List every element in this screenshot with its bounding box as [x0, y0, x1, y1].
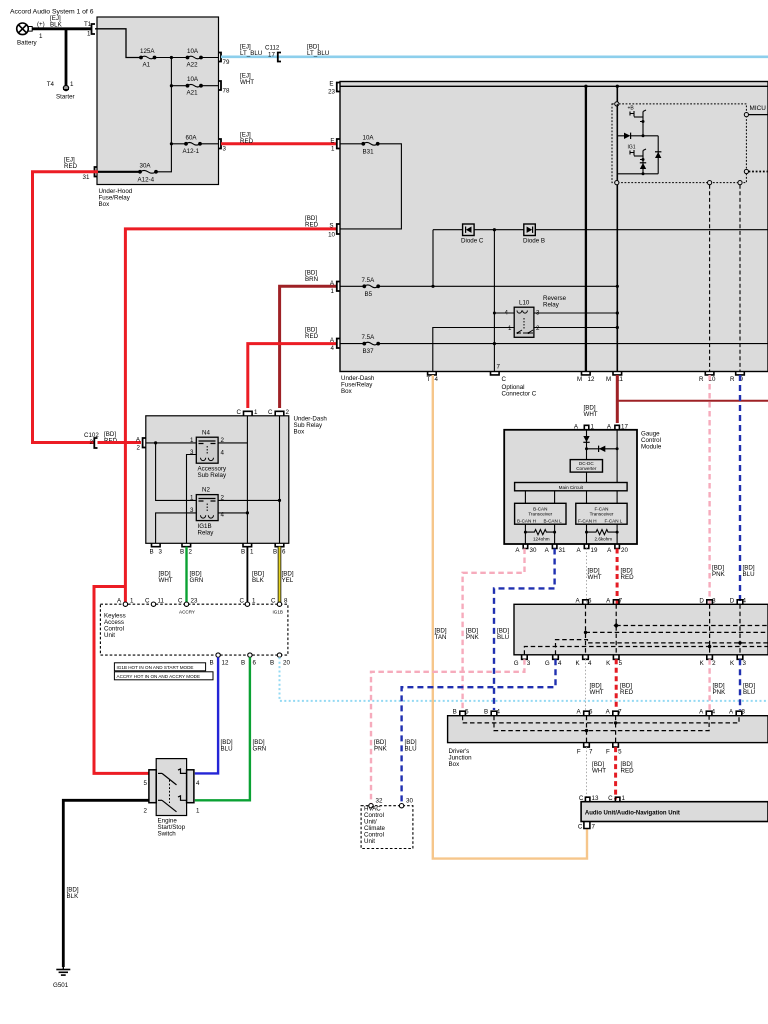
- wire A2 to N4 pin1 and N2 pin1: [146, 442, 197, 444]
- svg-text:WHT: WHT: [592, 768, 606, 775]
- svg-text:LT_BLU: LT_BLU: [240, 50, 262, 57]
- svg-text:B31: B31: [363, 148, 375, 155]
- svg-text:LT_BLU: LT_BLU: [307, 50, 329, 57]
- svg-text:Switch: Switch: [158, 831, 177, 838]
- pin A3 top: [736, 711, 742, 716]
- svg-text:20: 20: [283, 660, 290, 667]
- svg-text:WHT: WHT: [590, 689, 604, 696]
- switch contacts: [158, 769, 186, 812]
- svg-text:6: 6: [282, 549, 286, 556]
- svg-text:10A: 10A: [363, 134, 375, 141]
- svg-text:Unit: Unit: [364, 838, 375, 845]
- svg-text:G501: G501: [53, 982, 69, 989]
- gauge control module box: [504, 430, 637, 544]
- svg-text:60A: 60A: [186, 134, 198, 141]
- djb internal dashed wires: [463, 716, 739, 743]
- svg-text:2: 2: [90, 439, 94, 446]
- keyless bottom pin B12: [216, 653, 220, 657]
- pin A30 bottom: [523, 544, 528, 549]
- wire BD BLU K3 to DJB A3: [739, 659, 741, 710]
- wire BD BLK B1 to keyless C1: [246, 547, 248, 602]
- svg-text:20: 20: [621, 547, 628, 554]
- svg-text:B: B: [150, 549, 154, 556]
- fuse A12-4 30A wire: [98, 171, 139, 173]
- svg-text:T4: T4: [47, 81, 55, 88]
- svg-text:RED: RED: [240, 138, 254, 145]
- svg-text:4: 4: [196, 780, 200, 787]
- vertical from diode row to B37 row and pin 7: [493, 230, 495, 372]
- wire N4 pin3 to B2: [187, 455, 197, 544]
- wire C2 to N2 pin2 to B6: [279, 416, 281, 543]
- pin D3 top: [707, 600, 713, 605]
- svg-text:A12-4: A12-4: [138, 176, 155, 183]
- svg-text:3: 3: [742, 709, 746, 716]
- micu bottom wire: [617, 174, 658, 181]
- svg-text:Box: Box: [449, 761, 461, 768]
- svg-text:1: 1: [252, 598, 256, 605]
- wire BD TAN T4 to audio C7: [433, 375, 587, 859]
- M11 bus vertical: [616, 86, 618, 371]
- svg-text:6: 6: [589, 709, 593, 716]
- svg-text:7: 7: [497, 364, 501, 371]
- svg-text:32: 32: [376, 798, 383, 805]
- svg-text:Diode C: Diode C: [461, 238, 484, 245]
- wire BD PNK R10 to D3: [708, 375, 710, 604]
- wire BD RED A4 to C1: [248, 344, 336, 408]
- svg-text:B: B: [241, 549, 245, 556]
- svg-text:WHT: WHT: [240, 79, 254, 86]
- fuse B5 7.5A: [340, 285, 363, 287]
- svg-text:E: E: [330, 138, 334, 145]
- relay pin4 wire: [494, 312, 514, 314]
- svg-text:M: M: [606, 376, 611, 383]
- svg-text:30: 30: [530, 547, 537, 554]
- svg-text:30: 30: [406, 798, 413, 805]
- svg-text:Main Circuit: Main Circuit: [559, 485, 584, 490]
- keyless bottom pin B20: [277, 653, 281, 657]
- relay pin3 wire: [534, 312, 617, 314]
- svg-text:1: 1: [70, 81, 74, 88]
- pin K4 bottom: [583, 655, 589, 660]
- M12 bus vertical: [585, 86, 587, 371]
- svg-text:A1: A1: [143, 62, 151, 69]
- svg-text:C: C: [502, 376, 507, 383]
- pin M11: [613, 372, 622, 375]
- pin C7 bottom: [584, 822, 590, 829]
- svg-text:YEL: YEL: [282, 577, 294, 584]
- svg-text:4: 4: [712, 709, 716, 716]
- fuse B37 7.5A: [340, 343, 363, 345]
- wire BD RED K5 to DJB A7: [615, 659, 618, 710]
- connector C102: [94, 438, 97, 448]
- pin F7 bottom: [584, 743, 590, 748]
- svg-text:WHT: WHT: [584, 411, 598, 418]
- svg-text:7.5A: 7.5A: [362, 277, 376, 284]
- svg-text:C: C: [237, 409, 242, 416]
- svg-text:RED: RED: [621, 768, 635, 775]
- pin A4 top: [706, 711, 712, 716]
- svg-text:C112: C112: [265, 45, 280, 52]
- pin G3 bottom: [522, 655, 528, 660]
- svg-text:5: 5: [618, 749, 622, 756]
- svg-text:Box: Box: [99, 201, 111, 208]
- pin S10: [337, 224, 340, 234]
- wire LT_BLU pin79 to right edge: [221, 55, 768, 58]
- keyless top pin C11: [151, 602, 155, 606]
- wire EJ RED pin31 down to C102: [33, 172, 99, 443]
- ground G501: [56, 967, 70, 975]
- svg-text:1: 1: [331, 288, 335, 295]
- dashed verticals to R10 R9: [709, 185, 711, 372]
- svg-text:7: 7: [618, 709, 622, 716]
- svg-text:PNK: PNK: [466, 634, 480, 641]
- svg-text:1: 1: [508, 325, 512, 332]
- relay N4: [190, 430, 227, 480]
- svg-text:B-CAN L: B-CAN L: [544, 519, 563, 524]
- svg-text:7: 7: [619, 597, 623, 604]
- pin A1: [337, 282, 340, 292]
- transistor IG1: [628, 145, 647, 160]
- wire BD BLU R9 to D4: [739, 375, 741, 604]
- pin C1 top: [615, 797, 620, 802]
- svg-text:1: 1: [591, 424, 595, 431]
- svg-text:N4: N4: [202, 430, 210, 437]
- svg-text:23: 23: [191, 598, 198, 605]
- svg-text:A22: A22: [187, 62, 199, 69]
- wire N2 pin3 to B3: [156, 513, 197, 543]
- HVAC control unit dashed box: [361, 806, 413, 849]
- svg-text:10: 10: [328, 232, 335, 239]
- wire battery to T1: [33, 27, 92, 30]
- svg-text:TAN: TAN: [435, 634, 447, 641]
- wire A1 to bus: [155, 57, 187, 59]
- svg-text:BLK: BLK: [67, 893, 80, 900]
- svg-text:B: B: [241, 660, 245, 667]
- wire BD BLU G4 to HVAC 30: [402, 659, 556, 806]
- svg-text:B5: B5: [365, 291, 373, 298]
- svg-text:L10: L10: [519, 300, 530, 307]
- B-CAN terminator 124ohm: [525, 524, 554, 544]
- svg-text:13: 13: [592, 795, 599, 802]
- battery: [17, 23, 33, 35]
- svg-text:C: C: [178, 598, 183, 605]
- under-dash fuse/relay box: [340, 82, 768, 372]
- svg-text:124ohm: 124ohm: [533, 537, 550, 542]
- svg-text:M: M: [577, 376, 582, 383]
- svg-text:1: 1: [254, 409, 258, 416]
- wire LT BLU dotted B20 down right: [280, 657, 768, 701]
- svg-text:8: 8: [284, 598, 288, 605]
- svg-text:1: 1: [130, 598, 134, 605]
- svg-text:Audio Unit/Audio-Navigation Un: Audio Unit/Audio-Navigation Unit: [585, 811, 680, 817]
- svg-text:2: 2: [144, 808, 148, 815]
- svg-text:1: 1: [331, 146, 335, 153]
- note box 1: [114, 663, 205, 671]
- svg-text:MICU: MICU: [750, 105, 767, 112]
- fuse A22 10A: [186, 56, 202, 59]
- pin A2 left: [143, 438, 146, 448]
- svg-text:B: B: [273, 549, 277, 556]
- pin E1: [337, 139, 340, 149]
- svg-text:79: 79: [223, 59, 230, 66]
- diode B: [523, 224, 545, 245]
- B-CAN transceiver: [525, 491, 617, 504]
- main circuit: [515, 483, 628, 491]
- svg-text:1: 1: [196, 808, 200, 815]
- pin 3: [218, 139, 221, 149]
- wire BD BLK switch pin2 to ground: [63, 800, 149, 967]
- pin A1 top: [584, 425, 589, 430]
- svg-text:12: 12: [222, 660, 229, 667]
- svg-text:C: C: [578, 824, 583, 831]
- svg-text:R: R: [730, 376, 735, 383]
- transistor +B: [628, 106, 647, 122]
- audio unit box: [581, 802, 768, 822]
- svg-text:23: 23: [328, 89, 335, 96]
- pin 79: [218, 53, 221, 62]
- pin 31: [95, 167, 98, 177]
- wire BD RED A20 to A7: [616, 549, 619, 605]
- pin F5 bottom: [613, 743, 619, 748]
- wire BD WHT K4 to DJB A6: [585, 659, 587, 710]
- svg-text:4: 4: [435, 376, 439, 383]
- wire B31 to S10: [340, 144, 401, 229]
- svg-text:31: 31: [559, 547, 566, 554]
- connector C112: [278, 53, 281, 62]
- pin E23: [337, 83, 340, 92]
- diode below A1: [586, 430, 588, 449]
- wire C102 to A2: [98, 441, 142, 444]
- svg-text:IG1B: IG1B: [273, 610, 283, 615]
- svg-text:PNK: PNK: [713, 689, 727, 696]
- svg-text:3: 3: [712, 597, 716, 604]
- pin 78: [218, 81, 221, 90]
- pin A20 bottom: [615, 544, 620, 549]
- svg-text:1: 1: [39, 33, 43, 40]
- pin C13 top: [585, 797, 590, 802]
- pin A7 top: [613, 600, 619, 605]
- svg-text:F-CAN L: F-CAN L: [605, 519, 623, 524]
- pin C1 top: [244, 411, 253, 416]
- svg-text:4: 4: [221, 450, 225, 457]
- pin D4 top: [737, 600, 743, 605]
- svg-text:ACCRY: ACCRY: [179, 610, 195, 615]
- wire T1 to fuse A1: [95, 29, 140, 58]
- fuse A12-1 60A: [171, 143, 185, 145]
- fuse A21 10A: [171, 85, 186, 87]
- pin C optional: [491, 372, 500, 375]
- svg-text:B: B: [180, 549, 184, 556]
- wire BD PNK G3 to HVAC 32: [371, 659, 524, 806]
- starter: [63, 85, 68, 90]
- pin B1 bottom: [243, 543, 252, 546]
- svg-text:T1: T1: [84, 21, 92, 28]
- svg-text:ACCRY HOT IN ON AND ACCRY MODE: ACCRY HOT IN ON AND ACCRY MODE: [117, 674, 201, 679]
- svg-text:4: 4: [558, 660, 562, 667]
- svg-text:RED: RED: [621, 574, 635, 581]
- svg-text:Relay: Relay: [543, 302, 560, 309]
- svg-text:2: 2: [137, 445, 141, 452]
- svg-text:BRN: BRN: [305, 276, 318, 283]
- under-hood fuse/relay box: [97, 17, 219, 185]
- F-CAN transceiver: [576, 503, 627, 524]
- svg-text:G: G: [545, 660, 550, 667]
- svg-text:5: 5: [144, 780, 148, 787]
- pin B5 top: [460, 711, 466, 716]
- wire BD YEL B6 to keyless C8: [278, 547, 282, 602]
- svg-text:7: 7: [592, 824, 596, 831]
- svg-text:4: 4: [331, 345, 335, 352]
- svg-text:BLU: BLU: [743, 571, 755, 578]
- svg-text:BLK: BLK: [252, 577, 265, 584]
- pin R10: [705, 372, 714, 375]
- svg-text:Battery: Battery: [17, 40, 38, 47]
- svg-text:Transceiver: Transceiver: [590, 512, 614, 517]
- svg-text:IG1: IG1: [628, 145, 636, 151]
- svg-text:1: 1: [622, 795, 626, 802]
- MICU right solid lead: [749, 114, 768, 116]
- keyless top pin A1: [123, 602, 127, 606]
- pin C2 top: [275, 411, 284, 416]
- pin T4: [428, 372, 437, 375]
- svg-text:4: 4: [497, 709, 501, 716]
- pin K3 bottom: [737, 655, 743, 660]
- pin B3 bottom: [152, 543, 161, 546]
- wire BD WHT A19 to A6 dotted: [586, 549, 588, 605]
- svg-text:G: G: [514, 660, 519, 667]
- pin M12: [582, 372, 591, 375]
- svg-text:GRN: GRN: [253, 746, 267, 753]
- svg-text:PNK: PNK: [374, 746, 388, 753]
- wire BD GRN B2 to C23: [185, 547, 187, 602]
- svg-text:+B: +B: [628, 106, 635, 112]
- svg-text:1: 1: [250, 549, 254, 556]
- svg-text:C: C: [271, 598, 276, 605]
- pin A19 bottom: [584, 544, 589, 549]
- svg-text:Transceiver: Transceiver: [528, 512, 552, 517]
- keyless access control unit dashed box: [100, 604, 288, 655]
- pin B4 top: [491, 711, 497, 716]
- svg-text:31: 31: [83, 174, 90, 181]
- fuse B31 10A: [340, 143, 362, 145]
- wire BD GRN B6 to switch pin1: [195, 657, 250, 800]
- svg-text:5: 5: [465, 709, 469, 716]
- engine start/stop switch: [156, 759, 186, 816]
- svg-text:F: F: [577, 749, 581, 756]
- pin B2 bottom: [182, 543, 191, 546]
- svg-text:BLU: BLU: [497, 634, 509, 641]
- svg-text:BLU: BLU: [743, 689, 755, 696]
- micu internal diode from M11: [617, 104, 624, 136]
- keyless bottom pin B6: [248, 653, 252, 657]
- MICU pin circles: [615, 102, 619, 106]
- svg-text:5: 5: [619, 660, 623, 667]
- svg-text:D: D: [730, 597, 735, 604]
- svg-text:(+): (+): [37, 21, 45, 28]
- svg-text:Diode B: Diode B: [523, 238, 545, 245]
- svg-text:C: C: [145, 598, 150, 605]
- pin G4 bottom: [553, 655, 559, 660]
- diode under IG1: [642, 160, 644, 174]
- DC-DC converter: [570, 460, 602, 473]
- wire to starter: [65, 29, 68, 85]
- svg-text:3: 3: [159, 549, 163, 556]
- under-dash sub relay box: [146, 416, 289, 544]
- svg-text:RED: RED: [305, 333, 319, 340]
- svg-text:2: 2: [712, 660, 716, 667]
- wire red branch to switch pin 5: [94, 587, 149, 774]
- jb1 internal dashed wires: [524, 604, 768, 655]
- svg-text:BLU: BLU: [405, 746, 417, 753]
- svg-text:C: C: [608, 795, 613, 802]
- svg-text:2: 2: [536, 325, 540, 332]
- wire BD RED S10 to keyless A1: [125, 229, 336, 602]
- svg-text:C102: C102: [84, 432, 99, 439]
- svg-text:IG1B HOT IN ON AND START MODE: IG1B HOT IN ON AND START MODE: [117, 665, 194, 670]
- svg-text:6: 6: [253, 660, 257, 667]
- svg-text:T: T: [427, 376, 431, 383]
- wire BD BRN A1 to C2: [280, 286, 336, 408]
- svg-text:Module: Module: [641, 444, 662, 451]
- pin A17 top: [615, 425, 620, 430]
- svg-text:C: C: [268, 409, 273, 416]
- svg-text:WHT: WHT: [588, 574, 602, 581]
- svg-text:17: 17: [268, 52, 275, 59]
- svg-text:Box: Box: [294, 429, 306, 436]
- svg-text:2: 2: [189, 549, 193, 556]
- keyless top pin C8 IG1B: [277, 602, 281, 606]
- relay pin2 wire: [534, 327, 617, 329]
- svg-text:1: 1: [87, 31, 91, 38]
- svg-text:Sub Relay: Sub Relay: [198, 472, 227, 479]
- wire EJ RED pin3 to E1: [221, 142, 336, 145]
- svg-text:B: B: [210, 660, 214, 667]
- svg-text:GRN: GRN: [190, 577, 204, 584]
- svg-text:R: R: [699, 376, 704, 383]
- pin R9: [736, 372, 745, 375]
- svg-text:10A: 10A: [187, 48, 199, 55]
- driver's junction box: [448, 716, 768, 743]
- svg-text:B: B: [484, 709, 488, 716]
- pin B6 bottom: [275, 543, 284, 546]
- svg-text:B: B: [270, 660, 274, 667]
- svg-text:4: 4: [743, 597, 747, 604]
- svg-text:2: 2: [286, 409, 290, 416]
- svg-text:3: 3: [743, 660, 747, 667]
- keyless top pin C1: [245, 602, 249, 606]
- fuse A1 125A: [140, 56, 156, 59]
- svg-text:2.6kohm: 2.6kohm: [595, 537, 613, 542]
- svg-text:12: 12: [588, 376, 595, 383]
- connector T1: [92, 24, 96, 34]
- reverse relay L10: [505, 295, 567, 337]
- svg-text:Starter: Starter: [56, 94, 75, 101]
- svg-text:Connector C: Connector C: [502, 391, 537, 398]
- svg-text:N2: N2: [202, 487, 210, 494]
- svg-text:C: C: [579, 795, 584, 802]
- svg-text:F: F: [606, 749, 610, 756]
- svg-text:E: E: [329, 81, 333, 88]
- bus vertical: [170, 58, 172, 144]
- svg-text:3: 3: [223, 146, 227, 153]
- junction box 1: [514, 604, 768, 655]
- svg-text:19: 19: [591, 547, 598, 554]
- svg-text:78: 78: [223, 88, 230, 95]
- svg-text:7: 7: [589, 749, 593, 756]
- wire C1 to N4 pin2 to N2 pin4 to B1: [246, 416, 248, 543]
- diode C: [461, 224, 484, 245]
- svg-text:WHT: WHT: [159, 577, 173, 584]
